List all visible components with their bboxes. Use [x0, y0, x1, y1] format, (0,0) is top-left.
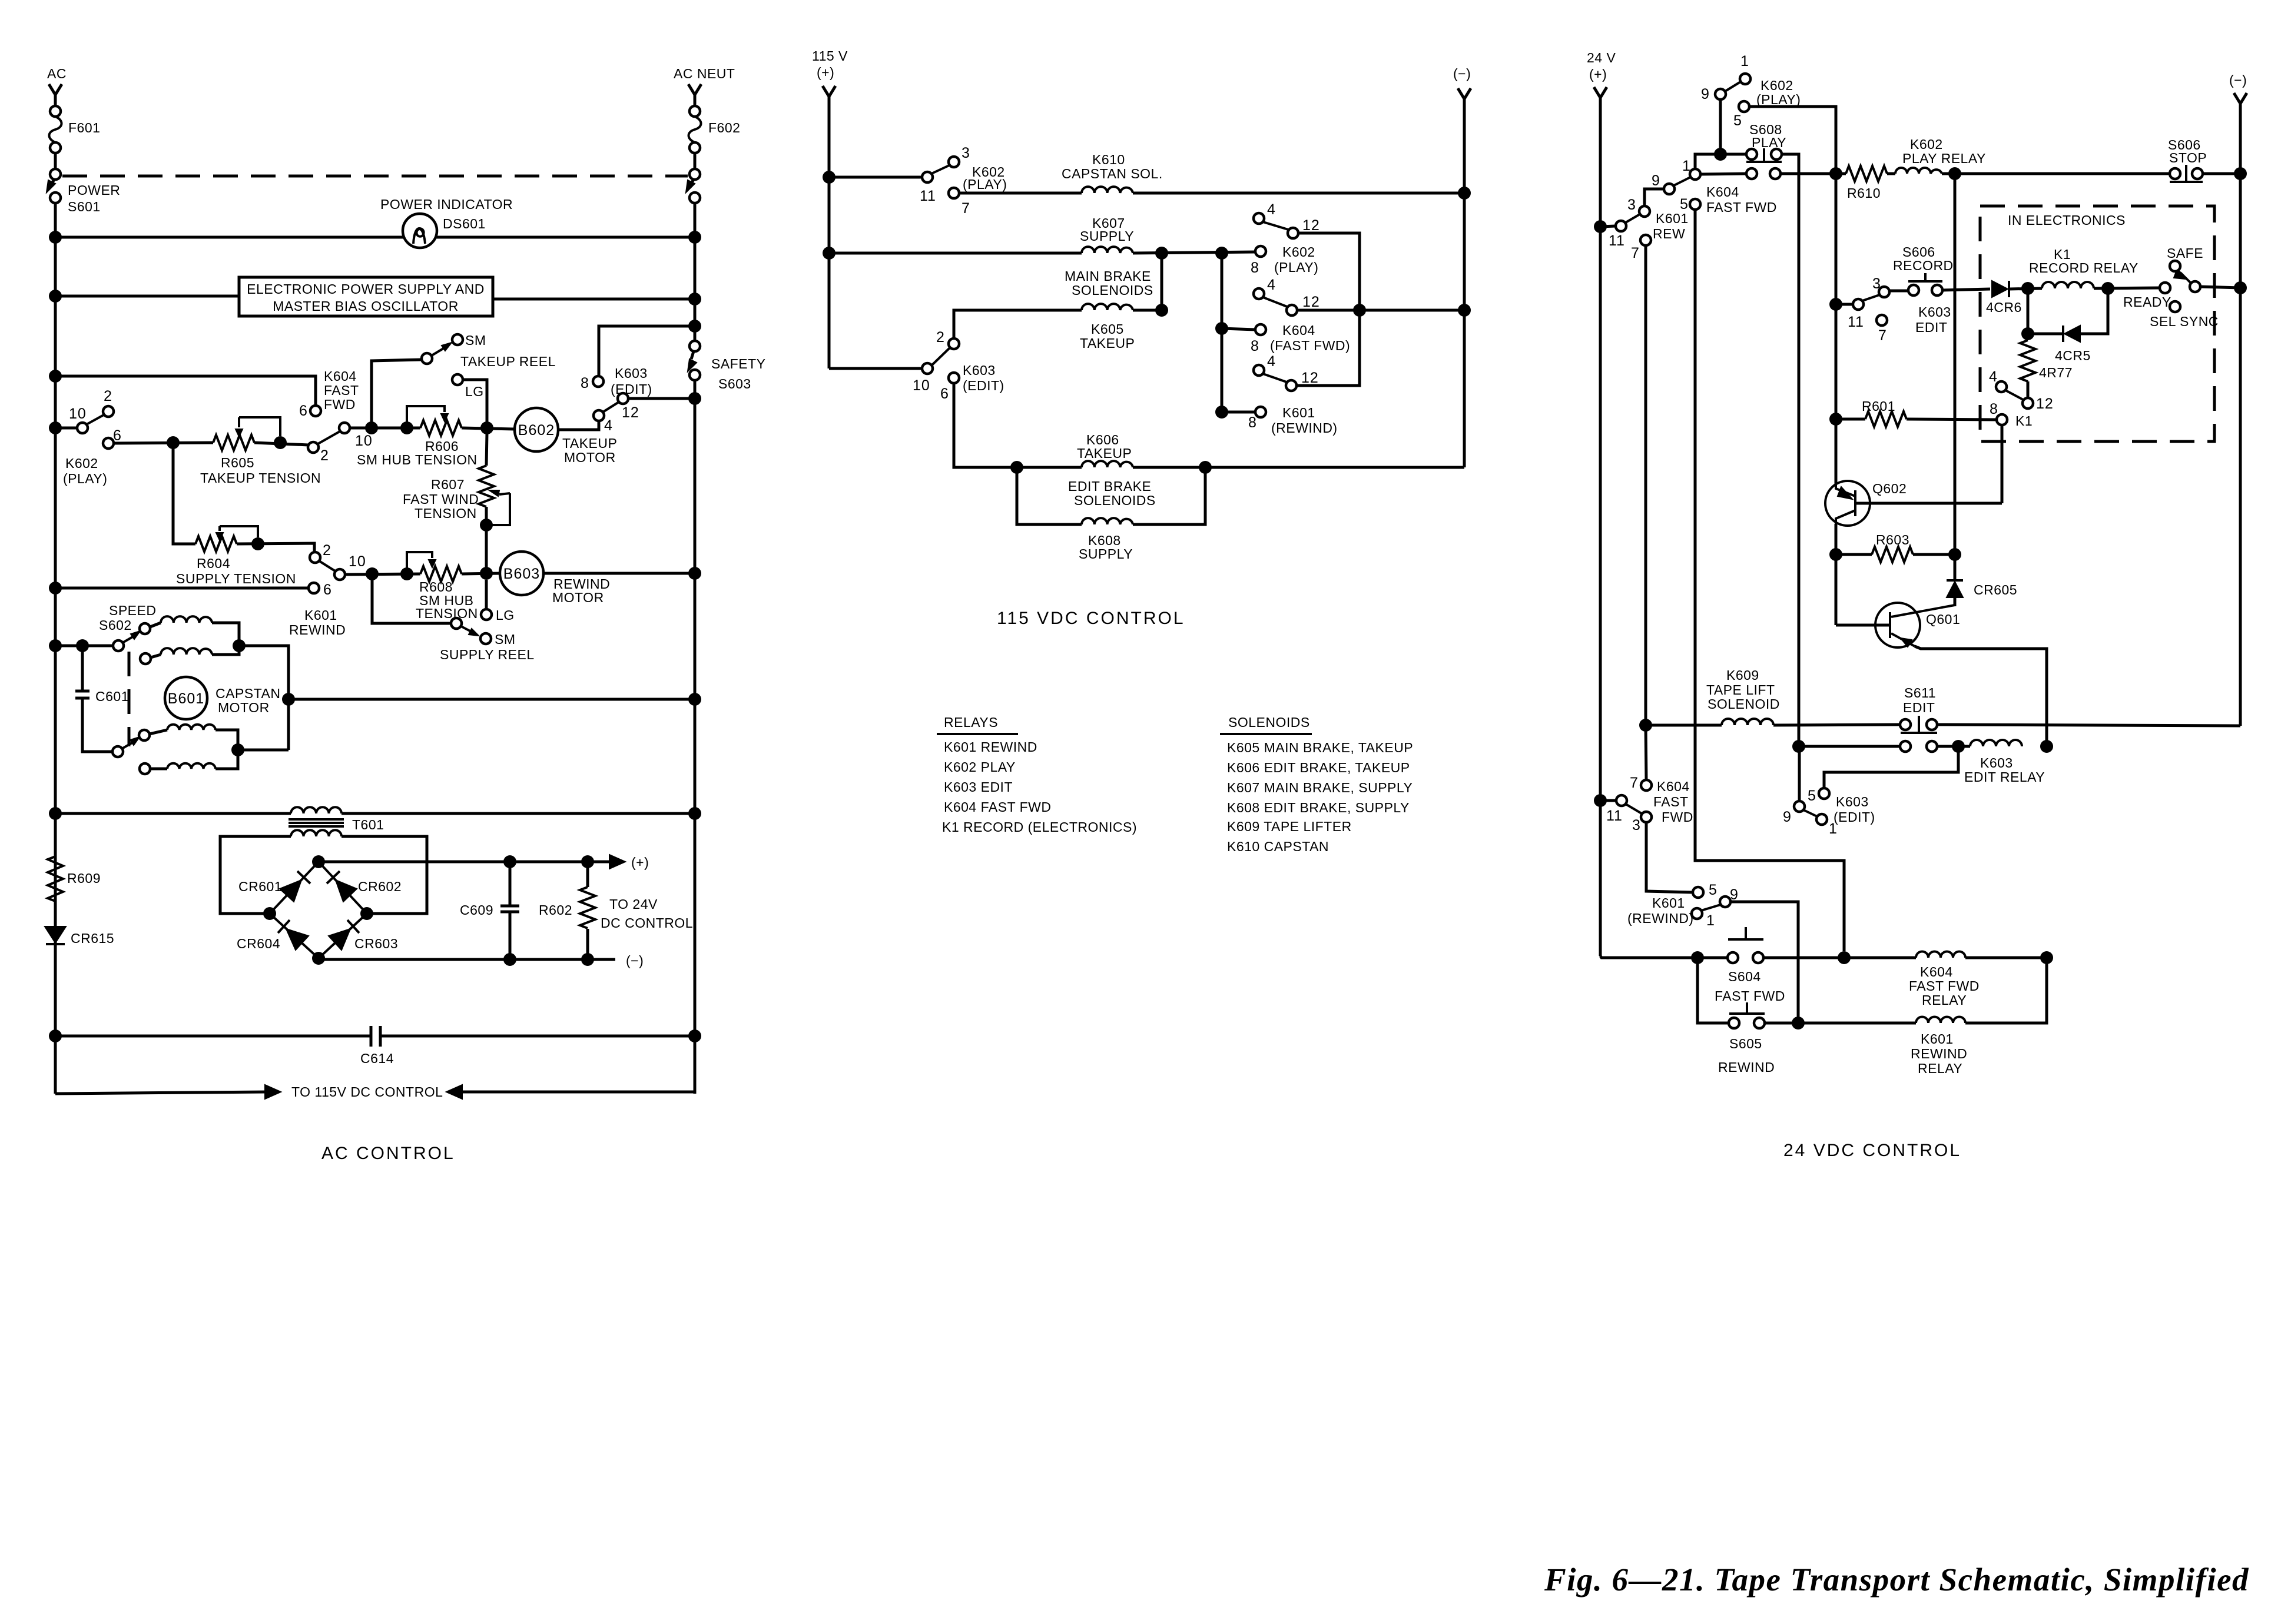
- svg-text:AC NEUT: AC NEUT: [674, 66, 735, 81]
- resistor R601: [1829, 413, 1842, 426]
- svg-text:TAKEUP: TAKEUP: [1080, 336, 1135, 351]
- wire R605 junction down to R604: [173, 443, 195, 544]
- svg-text:(EDIT): (EDIT): [1834, 809, 1875, 825]
- pushbutton S608 pole2 in R610 line: [1700, 174, 1746, 174]
- switch K601? SM-hub 2-10: [308, 442, 319, 453]
- switch supply-reel SM: [372, 574, 451, 623]
- mechanical link S602: [128, 652, 131, 746]
- svg-text:FAST: FAST: [1653, 794, 1689, 809]
- svg-text:C601: C601: [95, 689, 129, 704]
- wire bottom rail and S604 rung: [1600, 956, 1728, 958]
- svg-text:R603: R603: [1876, 532, 1909, 547]
- svg-text:S604: S604: [1728, 969, 1761, 984]
- wire to K603 contact 8: [599, 326, 695, 376]
- transformer T601 core: [289, 819, 344, 826]
- svg-text:K604: K604: [324, 368, 357, 384]
- svg-text:SOLENOID: SOLENOID: [1708, 696, 1780, 712]
- svg-text:R607: R607: [431, 477, 465, 492]
- contact 8 of K601 rewind: [1255, 407, 1266, 417]
- svg-text:5: 5: [1709, 882, 1718, 898]
- wire left rail: [54, 203, 57, 1094]
- svg-text:4: 4: [1989, 368, 1998, 385]
- svg-text:7: 7: [962, 200, 970, 217]
- svg-text:11: 11: [1848, 314, 1864, 330]
- svg-text:6: 6: [113, 427, 122, 444]
- svg-text:K606 EDIT BRAKE, TAKEUP: K606 EDIT BRAKE, TAKEUP: [1227, 760, 1410, 775]
- junction R608 left: [400, 567, 413, 580]
- svg-text:RECORD RELAY: RECORD RELAY: [2029, 260, 2139, 275]
- switch K601 (REWIND) 5-9-1: [1693, 887, 1703, 898]
- resistor R607 fast wind tension: [486, 433, 487, 466]
- safety switch S603: [689, 341, 700, 351]
- transformer T601 primary: [291, 807, 342, 813]
- svg-text:8: 8: [1251, 260, 1259, 276]
- svg-text:EDIT: EDIT: [1903, 700, 1935, 715]
- svg-text:FAST FWD: FAST FWD: [1706, 200, 1777, 215]
- svg-text:(+): (+): [817, 65, 834, 80]
- diode CR605: [1954, 554, 1957, 580]
- svg-text:S603: S603: [718, 376, 751, 391]
- diode CR615: [45, 926, 66, 943]
- svg-text:SEL SYNC: SEL SYNC: [2150, 314, 2219, 329]
- svg-text:ELECTRONIC POWER SUPPLY AND: ELECTRONIC POWER SUPPLY AND: [247, 281, 485, 297]
- svg-text:6: 6: [323, 582, 332, 598]
- switch K1 4-12-8: [1996, 381, 2007, 392]
- svg-text:(−): (−): [626, 953, 644, 968]
- switch S602 lower pole: [112, 746, 123, 757]
- wire contact6 down to K606 rung: [954, 383, 1082, 467]
- wire contact9 down to S605 rung: [1730, 902, 1798, 1023]
- wire AC bus 2 left: [55, 295, 239, 298]
- wire right rail lower: [694, 380, 697, 1094]
- svg-text:CR601: CR601: [238, 879, 282, 894]
- svg-text:MOTOR: MOTOR: [552, 590, 604, 605]
- wire AC bus 2 right: [493, 298, 695, 301]
- svg-text:5: 5: [1680, 196, 1689, 212]
- svg-text:10: 10: [355, 433, 373, 449]
- wire 24V rail to pivot: [1600, 226, 1616, 227]
- svg-text:S605: S605: [1729, 1036, 1762, 1051]
- svg-text:6: 6: [940, 386, 949, 402]
- svg-text:(PLAY): (PLAY): [1274, 260, 1318, 275]
- svg-text:1: 1: [1706, 912, 1715, 929]
- wire AC bus to T601 primary: [55, 812, 291, 815]
- svg-text:K601: K601: [1656, 211, 1689, 226]
- svg-text:1: 1: [1740, 53, 1749, 69]
- svg-text:K602 PLAY: K602 PLAY: [944, 759, 1016, 775]
- resistor R610: [1846, 166, 1887, 181]
- svg-text:SAFE: SAFE: [2167, 245, 2203, 261]
- svg-text:LG: LG: [465, 384, 484, 399]
- svg-text:9: 9: [1652, 172, 1660, 189]
- svg-text:10: 10: [349, 553, 366, 570]
- svg-text:FAST: FAST: [324, 383, 359, 398]
- switch K602 contacts 4-12: [1254, 213, 1264, 224]
- wire K605 rung: [1133, 253, 1162, 310]
- svg-text:TAKEUP REEL: TAKEUP REEL: [460, 354, 556, 369]
- transistor Q601: [1875, 603, 1920, 647]
- junction: [688, 392, 701, 405]
- svg-text:CR615: CR615: [71, 931, 114, 946]
- wire pivot9 down: [1719, 99, 1722, 154]
- wire to collector vertical: [1298, 233, 1360, 310]
- wire bus 2: [823, 247, 835, 260]
- svg-text:LG: LG: [496, 607, 515, 623]
- svg-text:8: 8: [1251, 338, 1259, 354]
- svg-text:K605: K605: [1091, 321, 1124, 337]
- svg-text:8: 8: [1990, 401, 1998, 417]
- junction: [480, 421, 493, 434]
- svg-text:8: 8: [1248, 414, 1257, 431]
- svg-text:(−): (−): [2229, 72, 2247, 88]
- svg-text:(FAST FWD): (FAST FWD): [1270, 338, 1350, 353]
- svg-text:K601: K601: [1652, 895, 1685, 911]
- svg-text:RELAY: RELAY: [1918, 1061, 1962, 1076]
- svg-text:Q602: Q602: [1872, 481, 1907, 496]
- svg-text:K602: K602: [1910, 137, 1943, 152]
- svg-text:(PLAY): (PLAY): [963, 177, 1007, 192]
- svg-text:SM HUB TENSION: SM HUB TENSION: [357, 452, 478, 467]
- svg-text:12: 12: [1302, 294, 1320, 310]
- switch K604 1-9-5: [1690, 169, 1700, 180]
- svg-text:B602: B602: [518, 422, 555, 439]
- wire contact7 down to K609 rung: [1645, 245, 1647, 720]
- wire contact5 to R610 vertical: [1749, 107, 1836, 174]
- svg-text:CR603: CR603: [354, 936, 398, 951]
- relay coil K603 edit relay: [1970, 740, 2022, 746]
- svg-text:K609: K609: [1726, 667, 1759, 683]
- diode CR602: [336, 880, 357, 902]
- diode CR604: [286, 929, 309, 950]
- switch K603 (EDIT) 2-10-6: [949, 338, 959, 349]
- junction: [49, 231, 62, 244]
- svg-text:TAKEUP: TAKEUP: [1077, 446, 1132, 461]
- wire contact12 to right rail: [628, 397, 695, 400]
- wire to branch vertical: [238, 749, 289, 752]
- svg-text:F602: F602: [708, 120, 740, 135]
- mechanical link dashed line: [62, 175, 688, 178]
- svg-text:Q601: Q601: [1926, 612, 1960, 627]
- svg-text:FAST FWD: FAST FWD: [1909, 978, 1980, 994]
- svg-text:2: 2: [323, 542, 331, 559]
- svg-text:R605: R605: [221, 455, 254, 470]
- svg-text:7: 7: [1631, 245, 1640, 261]
- capacitor C614: [371, 1026, 380, 1047]
- motor B602 takeup: [515, 408, 558, 451]
- svg-text:K609 TAPE LIFTER: K609 TAPE LIFTER: [1227, 819, 1352, 834]
- terminal LG: [452, 374, 463, 385]
- svg-text:3: 3: [962, 145, 970, 161]
- switch K601 REW 3-11-7: [1639, 206, 1650, 217]
- svg-text:2: 2: [936, 329, 945, 346]
- svg-text:(PLAY): (PLAY): [63, 471, 107, 486]
- svg-text:SOLENOIDS: SOLENOIDS: [1072, 283, 1153, 298]
- wire SM pivot to bus: [372, 360, 422, 428]
- svg-text:12: 12: [2036, 396, 2054, 412]
- wire to R606: [350, 427, 420, 430]
- wire to K604 fast fwd contact 6: [55, 376, 316, 406]
- pushbutton S611 pole2: [1792, 740, 1805, 753]
- svg-text:(REWIND): (REWIND): [1271, 420, 1338, 436]
- switch K603 (EDIT) 5-9-1: [1819, 788, 1829, 799]
- resistor R605 takeup tension: [213, 435, 254, 450]
- wire to 115V DC control: [55, 1092, 268, 1094]
- svg-text:K605 MAIN BRAKE, TAKEUP: K605 MAIN BRAKE, TAKEUP: [1227, 740, 1413, 755]
- svg-text:B601: B601: [168, 690, 204, 707]
- inductor B601 winding upper-a: [150, 623, 161, 627]
- svg-text:AC: AC: [47, 66, 67, 81]
- switch K602 (PLAY) contacts 10-2-6: [49, 421, 62, 434]
- svg-text:K603: K603: [963, 363, 996, 378]
- junction supply-reel branch: [366, 567, 379, 580]
- wire to right rail: [289, 698, 695, 701]
- motor B601 capstan: [165, 677, 207, 719]
- svg-text:R601: R601: [1862, 398, 1895, 414]
- svg-text:CR604: CR604: [237, 936, 280, 951]
- contact 6 of K604 fast fwd: [310, 406, 321, 416]
- wire fuse to switch: [54, 153, 57, 169]
- wire pivot link to K604: [1695, 154, 1720, 169]
- svg-text:K601: K601: [304, 607, 337, 623]
- svg-text:4CR6: 4CR6: [1986, 300, 2022, 315]
- svg-text:S601: S601: [68, 199, 101, 214]
- svg-text:MOTOR: MOTOR: [564, 450, 616, 465]
- svg-text:FAST WIND: FAST WIND: [403, 491, 479, 507]
- wire to R608: [345, 574, 420, 574]
- svg-text:EDIT BRAKE: EDIT BRAKE: [1068, 479, 1151, 494]
- svg-text:K601 REWIND: K601 REWIND: [944, 739, 1037, 755]
- svg-text:DS601: DS601: [443, 216, 486, 231]
- svg-text:MASTER BIAS OSCILLATOR: MASTER BIAS OSCILLATOR: [273, 298, 459, 314]
- wire right rail upper: [694, 203, 697, 341]
- svg-text:115 V: 115 V: [812, 48, 848, 64]
- svg-text:11: 11: [1606, 808, 1623, 824]
- wire C614 bus: [55, 1035, 695, 1038]
- wire fuse to switch: [694, 153, 697, 169]
- pushbutton S604 FAST FWD: [1728, 952, 1738, 963]
- transistor Q602: [1835, 419, 1838, 484]
- contact 8 of K602 play: [1255, 246, 1266, 257]
- wire AC bus 1: [55, 236, 695, 239]
- svg-text:K602: K602: [1282, 244, 1315, 260]
- svg-text:TENSION: TENSION: [416, 606, 478, 621]
- svg-text:2: 2: [320, 447, 329, 464]
- wire pivot9 to K601: [1645, 189, 1664, 206]
- diode CR603: [329, 929, 350, 950]
- svg-text:1: 1: [1682, 158, 1691, 174]
- svg-text:R610: R610: [1847, 185, 1881, 201]
- svg-text:K603: K603: [615, 366, 648, 381]
- junction R610 node: [1829, 167, 1842, 180]
- svg-text:RELAYS: RELAYS: [944, 715, 998, 730]
- junction: [49, 370, 62, 383]
- svg-text:TAKEUP TENSION: TAKEUP TENSION: [200, 470, 321, 486]
- contact READY / SAFE / SEL SYNC: [2160, 283, 2170, 293]
- pushbutton S605 REWIND: [1729, 1018, 1739, 1028]
- contact 8 of K603: [593, 376, 604, 387]
- svg-text:CAPSTAN SOL.: CAPSTAN SOL.: [1062, 166, 1163, 181]
- wire B603 to right rail: [543, 572, 695, 575]
- wire contact3 down to K601 rewind: [1646, 822, 1693, 892]
- svg-text:4R77: 4R77: [2039, 365, 2073, 380]
- svg-text:TAPE LIFT: TAPE LIFT: [1706, 682, 1775, 698]
- inductor B601 winding lower-a: [150, 730, 167, 734]
- wire Q602 collector to R603: [1835, 524, 1838, 625]
- svg-text:K607 MAIN BRAKE, SUPPLY: K607 MAIN BRAKE, SUPPLY: [1227, 780, 1413, 795]
- wire rectifier box: [220, 836, 291, 914]
- contact 6 of K601 rewind: [309, 583, 319, 593]
- svg-text:9: 9: [1783, 809, 1792, 825]
- svg-text:K602: K602: [65, 456, 98, 471]
- svg-text:SUPPLY REEL: SUPPLY REEL: [440, 647, 535, 662]
- svg-text:FWD: FWD: [1662, 809, 1693, 825]
- svg-text:DC CONTROL: DC CONTROL: [601, 915, 693, 931]
- svg-text:B603: B603: [503, 566, 540, 582]
- wire LG to bus: [463, 380, 487, 423]
- svg-text:TO 115V DC CONTROL: TO 115V DC CONTROL: [291, 1084, 443, 1100]
- svg-text:4CR5: 4CR5: [2055, 348, 2091, 363]
- switch K604 contacts 4-12: [1254, 288, 1264, 299]
- svg-text:CR602: CR602: [358, 879, 402, 894]
- svg-text:FWD: FWD: [324, 397, 356, 412]
- svg-text:EDIT: EDIT: [1915, 320, 1947, 335]
- fuse F602: [689, 106, 700, 117]
- wire (-) output: [319, 958, 615, 959]
- capacitor C609: [509, 862, 512, 960]
- svg-text:(EDIT): (EDIT): [611, 381, 652, 397]
- svg-text:(+): (+): [631, 855, 649, 870]
- svg-text:10: 10: [69, 406, 87, 422]
- svg-text:EDIT RELAY: EDIT RELAY: [1964, 769, 2045, 785]
- svg-text:3: 3: [1632, 817, 1641, 833]
- svg-text:K610: K610: [1092, 152, 1125, 167]
- svg-text:K601: K601: [1282, 405, 1315, 420]
- svg-text:SOLENOIDS: SOLENOIDS: [1074, 493, 1156, 508]
- svg-text:9: 9: [1701, 86, 1710, 102]
- svg-text:MOTOR: MOTOR: [218, 700, 270, 715]
- svg-text:SUPPLY TENSION: SUPPLY TENSION: [176, 571, 296, 586]
- junction: [167, 436, 180, 449]
- svg-text:PLAY RELAY: PLAY RELAY: [1902, 151, 1986, 166]
- svg-text:STOP: STOP: [2169, 150, 2207, 165]
- svg-text:TENSION: TENSION: [415, 506, 477, 521]
- svg-text:K603: K603: [1918, 304, 1951, 320]
- resistor R609: [48, 856, 63, 901]
- svg-text:S611: S611: [1904, 685, 1936, 700]
- svg-text:K601: K601: [1921, 1031, 1954, 1047]
- svg-text:5: 5: [1733, 112, 1742, 129]
- svg-text:12: 12: [622, 404, 639, 421]
- svg-text:4: 4: [1267, 277, 1276, 293]
- junction: [688, 320, 701, 333]
- svg-text:F601: F601: [68, 120, 100, 135]
- switch K601 contacts 4-12: [1254, 365, 1264, 376]
- wire K603 pivot vertical: [1835, 174, 1838, 419]
- switch K603 EDIT 3-11-7: [1829, 298, 1842, 311]
- capacitor C601: [81, 646, 84, 690]
- svg-text:POWER: POWER: [68, 182, 120, 198]
- svg-text:POWER INDICATOR: POWER INDICATOR: [380, 197, 513, 212]
- svg-text:12: 12: [1301, 370, 1319, 386]
- svg-text:SOLENOIDS: SOLENOIDS: [1228, 715, 1310, 730]
- svg-text:K603: K603: [1836, 794, 1869, 809]
- svg-text:4: 4: [1267, 353, 1276, 370]
- inductor B601 winding lower-b: [140, 763, 150, 774]
- wire contact5 down: [1695, 210, 1844, 951]
- svg-text:FAST FWD: FAST FWD: [1715, 988, 1785, 1004]
- svg-text:115 VDC CONTROL: 115 VDC CONTROL: [997, 609, 1185, 628]
- diode 4CR5 loop: [2028, 288, 2063, 334]
- diode CR601: [280, 880, 301, 902]
- solenoid K608 supply parallel loop: [1017, 467, 1082, 524]
- svg-text:K603 EDIT: K603 EDIT: [944, 779, 1013, 795]
- resistor R602: [586, 862, 589, 960]
- resistor R603: [1829, 548, 1842, 561]
- svg-text:RECORD: RECORD: [1893, 258, 1954, 273]
- svg-text:REWIND: REWIND: [1911, 1046, 1967, 1061]
- svg-text:10: 10: [913, 377, 930, 394]
- svg-text:(PLAY): (PLAY): [1756, 92, 1801, 107]
- bridge diamond wires: [270, 862, 367, 958]
- junction SM branch: [365, 421, 378, 434]
- svg-text:R602: R602: [539, 902, 572, 918]
- svg-text:R604: R604: [197, 556, 230, 571]
- svg-text:K604: K604: [1657, 779, 1690, 794]
- switch K603 (EDIT) contacts 4-12: [594, 410, 604, 421]
- svg-text:CAPSTAN: CAPSTAN: [215, 686, 280, 701]
- wire B602 to K603 edit contact 4: [558, 421, 599, 430]
- svg-text:3: 3: [1872, 275, 1881, 292]
- svg-text:2: 2: [104, 388, 112, 404]
- junction: [49, 290, 62, 303]
- lamp DS601 power indicator: [403, 214, 437, 248]
- contact 8 of K604 fast fwd: [1255, 324, 1266, 335]
- svg-text:PLAY: PLAY: [1752, 135, 1786, 150]
- junction: [688, 293, 701, 305]
- wire play relay down: [1954, 174, 1957, 554]
- svg-text:4: 4: [1267, 201, 1276, 218]
- svg-text:7: 7: [1878, 327, 1887, 344]
- power switch S601 right pole: [689, 169, 700, 180]
- svg-text:K1 RECORD (ELECTRONICS): K1 RECORD (ELECTRONICS): [942, 819, 1137, 835]
- switch takeup-reel SM: [422, 353, 432, 364]
- wire S605 rung: [1697, 958, 1729, 1023]
- inductor B601 winding upper-b: [140, 653, 151, 664]
- svg-text:12: 12: [1302, 217, 1320, 234]
- svg-text:7: 7: [1630, 775, 1639, 791]
- svg-text:(+): (+): [1589, 67, 1607, 82]
- svg-text:6: 6: [299, 403, 308, 419]
- resistor R606 SM hub tension: [420, 420, 462, 436]
- svg-text:S602: S602: [99, 617, 132, 633]
- wire K603 coil left loop: [1824, 746, 1958, 799]
- svg-text:K604: K604: [1282, 323, 1315, 338]
- svg-text:11: 11: [920, 188, 936, 204]
- wire contact7 to K610: [959, 192, 1082, 195]
- svg-text:R609: R609: [67, 871, 101, 886]
- svg-text:REWIND: REWIND: [1718, 1060, 1775, 1075]
- svg-text:K610 CAPSTAN: K610 CAPSTAN: [1227, 839, 1329, 854]
- svg-text:SM: SM: [495, 632, 516, 647]
- svg-text:RELAY: RELAY: [1922, 992, 1967, 1008]
- motor B603 rewind: [500, 552, 543, 595]
- svg-text:24 VDC CONTROL: 24 VDC CONTROL: [1783, 1141, 1961, 1160]
- svg-text:REWIND: REWIND: [289, 622, 346, 637]
- wire coil junction to right rail branch: [239, 646, 289, 750]
- relay coil K601 rewind relay: [1916, 1017, 1965, 1023]
- power switch S601 left pole: [50, 169, 61, 180]
- svg-text:SUPPLY: SUPPLY: [1079, 546, 1133, 562]
